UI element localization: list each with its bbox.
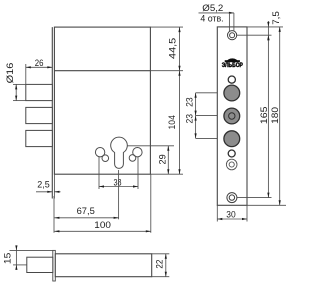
svg-text:165: 165: [259, 106, 270, 124]
svg-text:26: 26: [35, 58, 44, 69]
svg-text:104: 104: [167, 115, 178, 129]
svg-text:4 отв.: 4 отв.: [200, 14, 223, 25]
svg-text:2,5: 2,5: [37, 179, 50, 190]
svg-text:15: 15: [3, 253, 14, 264]
svg-text:180: 180: [270, 107, 281, 124]
svg-text:44,5: 44,5: [167, 38, 178, 59]
svg-text:ЭЛЬБОР: ЭЛЬБОР: [222, 62, 243, 69]
svg-text:67,5: 67,5: [77, 206, 95, 217]
svg-text:7,5: 7,5: [271, 11, 282, 25]
svg-text:38: 38: [114, 178, 122, 189]
svg-text:29: 29: [157, 154, 168, 164]
svg-text:Ø5,2: Ø5,2: [202, 3, 223, 14]
svg-text:100: 100: [94, 220, 111, 231]
svg-text:23: 23: [184, 97, 195, 107]
svg-text:30: 30: [226, 209, 235, 220]
svg-text:23: 23: [184, 114, 195, 124]
svg-text:Ø16: Ø16: [5, 63, 16, 84]
svg-text:22: 22: [155, 260, 166, 269]
